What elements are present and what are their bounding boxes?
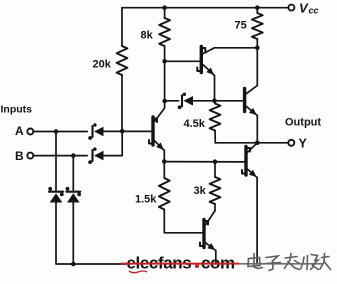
label 4.5k [184,118,206,130]
terminal input A [27,129,33,135]
transistor Q1 (Schottky, top Darlington) [197,47,214,76]
svg-text:A: A [15,124,24,138]
wire 1.5k bottom to Q5 base [164,210,202,233]
resistor R1 20k [117,46,128,75]
wire D1 anode to base node [104,130,152,132]
svg-text:B: B [15,149,24,163]
label Vcc [299,1,319,16]
junction dot A-clamp tap [54,129,59,134]
label 3k [194,185,207,197]
wire A clamp branch [55,132,57,191]
transistor Q5 (Schottky, squaring) [200,211,216,251]
wire Q5 emitter to ground rail [215,251,217,265]
label 1.5k [135,194,157,206]
label 8k [141,30,154,42]
watermark 电子发烧友 [248,254,331,271]
wire A clamp to ground rail [56,203,126,265]
wire Q2 emitter down [163,151,165,162]
wire base node down to N2 [164,61,166,101]
junction dot 3k tap [213,159,218,164]
svg-text:8k: 8k [141,30,154,42]
svg-text:V: V [299,1,309,16]
transistor Q2 (Schottky, phase splitter) [149,101,165,151]
svg-text:4.5k: 4.5k [184,118,206,130]
label B [15,149,24,163]
diode D4 (Schottky clamp, input B) [66,187,81,203]
transistor Q6 (Schottky, lower output) [242,143,257,178]
label 75 [235,20,247,32]
wire input A line [33,131,87,133]
resistor R4 4.5k [210,104,221,131]
terminal Y [288,140,294,146]
wire 75 top lead [256,8,258,13]
resistor R5 1.5k [159,178,170,210]
junction dot 75-collector node [255,46,260,51]
wire 3k bottom to Q5 collector [214,204,216,211]
label 20k [93,59,112,71]
wire emitter node to Q6 base [164,161,244,163]
junction dot 20k-base node [120,129,125,134]
wire Q1 emitter down to N1 [214,76,216,101]
diode D1 (Schottky, input A) [88,123,103,140]
resistor R3 75 [252,13,263,39]
wire collector node down to Q4 [256,48,258,86]
junction dot 8k-base node [162,59,167,64]
svg-text:Y: Y [299,137,308,151]
junction dot rail-8k [162,5,167,10]
wire 3k top lead [214,162,216,177]
wire B clamp to ground rail [72,203,74,265]
label Inputs [1,104,33,116]
wire 75 bottom lead [256,39,258,48]
junction dot rail-75 [255,5,260,10]
wire 20k bottom to input node [121,75,123,131]
wire input B line [33,155,87,157]
logo elecfans.com [121,254,239,273]
label Output [285,117,321,129]
svg-text:1.5k: 1.5k [135,194,157,206]
label Y [299,137,308,151]
resistor R2 8k [159,18,170,46]
wire 8k branch top [164,8,166,18]
junction dot output node [255,141,260,146]
wire B clamp branch [72,156,74,191]
resistor R6 3k [210,177,221,204]
wire ground rail right segment [239,263,322,265]
junction dot Q2 emitter node [162,159,167,164]
diode D5 (Schottky, Q2 collector to N1) [178,93,193,110]
wire D5 anode to N1 and Q4 base [193,100,243,102]
wire 8k bottom to T1 base node [164,46,166,61]
terminal Vcc [288,5,294,11]
junction dot B-clamp ground [71,262,76,267]
junction dot N1 [212,99,217,104]
svg-text:Output: Output [285,117,321,129]
svg-text:20k: 20k [93,59,112,71]
wire T1 base [165,60,200,62]
svg-text:cc: cc [309,6,319,16]
wire Q1 collector to 75 node [215,47,258,49]
svg-text:75: 75 [235,20,247,32]
wire output line to terminal Y [215,142,288,144]
junction dot B-clamp tap [71,153,76,158]
label A [15,124,24,138]
svg-text:Inputs: Inputs [1,104,33,116]
transistor Q4 (top output, plain NPN) [245,86,258,116]
junction dot N2 (Q2 collector node) [162,99,167,104]
wire 20k branch [121,8,123,46]
wire top Vcc rail [122,7,288,9]
wire Q6 emitter to ground rail [256,178,258,265]
diode D2 (Schottky, input B) [88,147,103,164]
terminal input B [27,153,33,159]
diode D3 (Schottky clamp, input A) [48,187,63,203]
wire 1.5k top lead [163,162,165,179]
wire N2 to D5 [165,100,179,102]
wire Q4 emitter down to output node [256,116,258,143]
wire 4.5k bottom to output line [214,131,216,143]
wire input node down to B line [104,131,122,155]
svg-text:3k: 3k [194,185,207,197]
